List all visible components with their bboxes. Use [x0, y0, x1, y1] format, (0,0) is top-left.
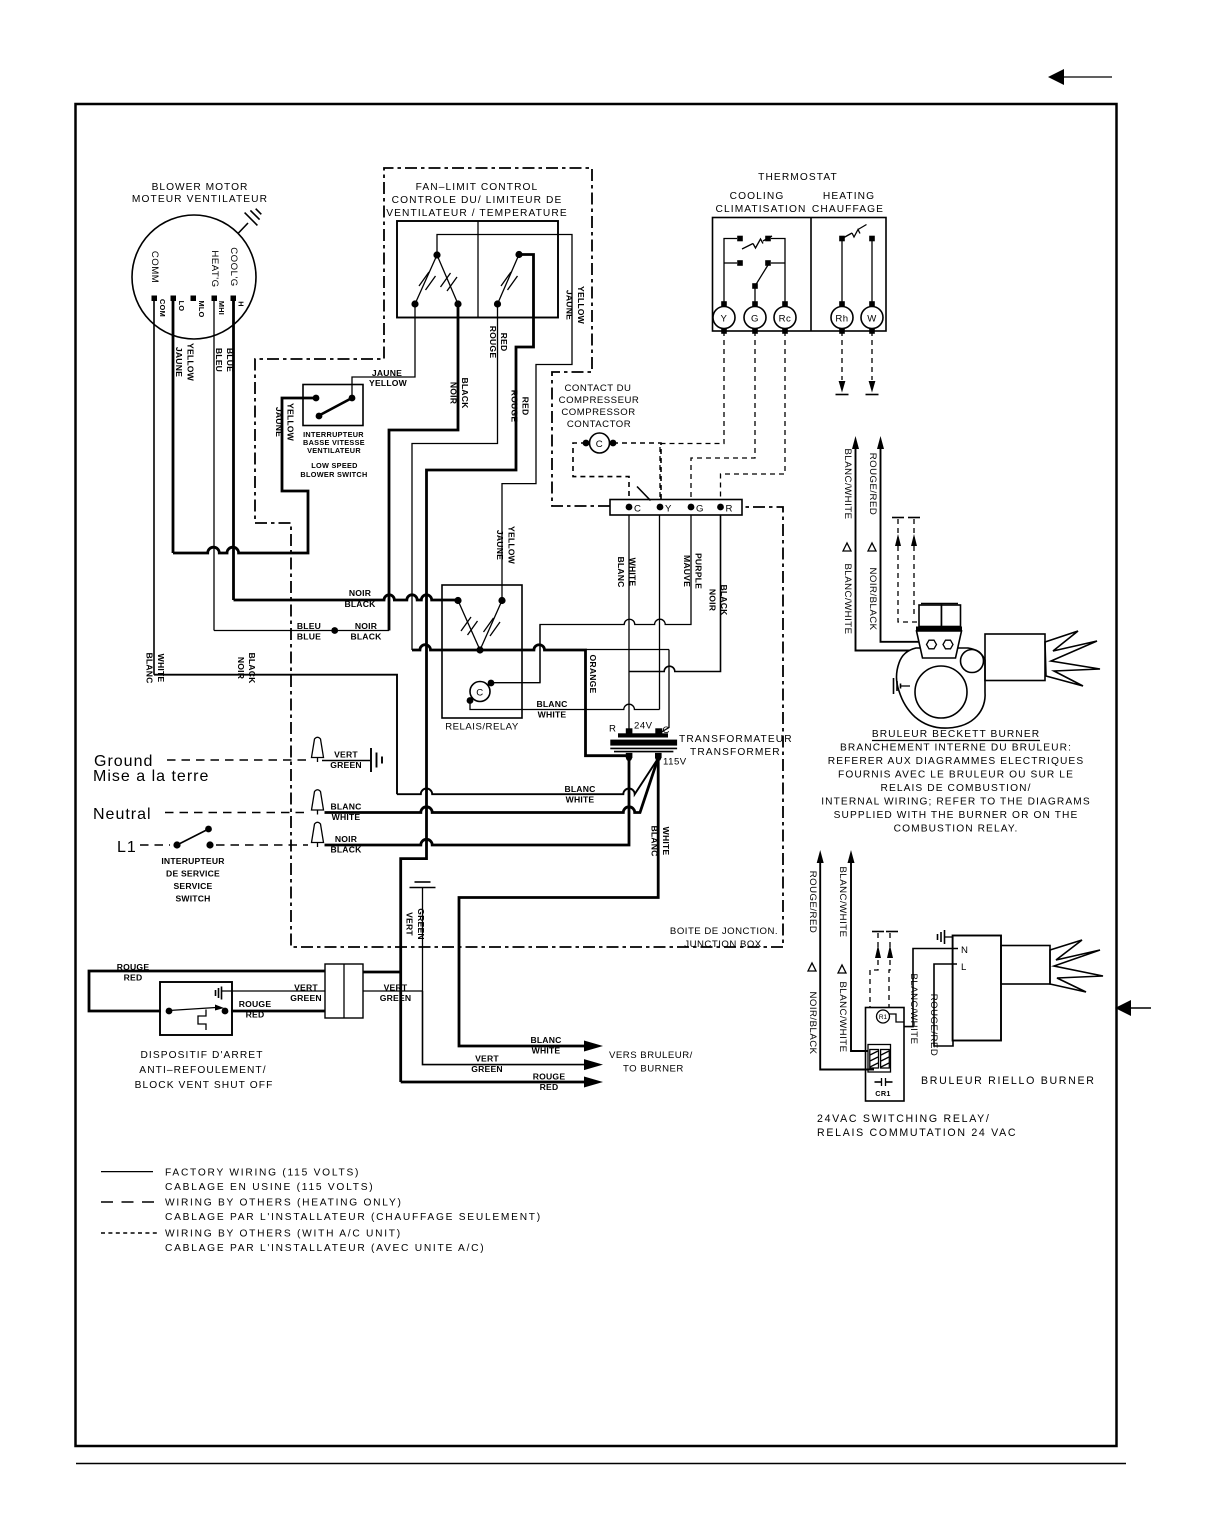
label noir black L1 row: [330, 834, 362, 855]
svg-text:VERT: VERT: [334, 750, 358, 760]
label vert green ground row: [330, 750, 362, 771]
svg-text:LOW SPEED: LOW SPEED: [311, 461, 358, 470]
svg-text:COM: COM: [158, 299, 167, 317]
riello flame: [1050, 940, 1103, 992]
beckett burner junction plate: [916, 627, 962, 659]
svg-text:Mise a la terre: Mise a la terre: [93, 768, 209, 785]
beckett flame: [1045, 631, 1100, 686]
label blanc/white strip C: [616, 556, 638, 587]
svg-text:Rh: Rh: [835, 314, 848, 325]
plug neutral: [312, 790, 324, 815]
wire neutral row to transformer: [325, 759, 659, 813]
svg-text:YELLOW: YELLOW: [186, 343, 196, 382]
svg-text:WIRING BY OTHERS (HEATING ONLY: WIRING BY OTHERS (HEATING ONLY): [165, 1198, 403, 1209]
wire Y dashed to terminal strip: [660, 331, 724, 500]
label blanc/white COM wire: [145, 652, 167, 683]
svg-text:LO: LO: [177, 301, 186, 312]
svg-text:HEAT'G: HEAT'G: [209, 250, 220, 287]
label blanc/white transformer down: [650, 825, 672, 856]
svg-text:REFERER AUX DIAGRAMMES ELECTRI: REFERER AUX DIAGRAMMES ELECTRIQUES: [828, 756, 1084, 767]
wire LO run to low speed switch: [173, 398, 313, 553]
svg-text:BLANC/WHITE: BLANC/WHITE: [842, 563, 853, 634]
thermostat box: [713, 218, 887, 332]
wire rouge/red thick from limit switch top: [401, 255, 534, 1083]
thermostat terminal W: [861, 301, 883, 334]
svg-text:RELAIS DE COMBUSTION/: RELAIS DE COMBUSTION/: [880, 783, 1031, 794]
fan switch contacts left: [411, 251, 461, 307]
svg-text:CONTACTOR: CONTACTOR: [567, 419, 631, 430]
label vers bruleur to burner: [609, 1050, 693, 1075]
label rouge red burner feed: [533, 1072, 566, 1093]
wire transformer 115V hot to L1 row: [325, 758, 630, 845]
svg-text:RED: RED: [246, 1010, 265, 1020]
svg-text:SERVICE: SERVICE: [174, 881, 213, 891]
wire H noir/black vertical: [232, 301, 235, 600]
svg-text:BLUE: BLUE: [297, 632, 321, 642]
wire strip G mauve/purple to relay coil: [493, 515, 691, 683]
svg-text:COOLING: COOLING: [730, 191, 785, 202]
label jaune yellow fan-limit right: [565, 286, 587, 325]
low speed blower switch S2 box: [303, 385, 363, 426]
thermostat terminal Rc: [774, 301, 796, 334]
svg-text:ROUGE/RED: ROUGE/RED: [928, 994, 939, 1057]
right reference arrow: [1115, 1000, 1151, 1016]
svg-text:TRANSFORMER: TRANSFORMER: [690, 747, 781, 758]
arrow vert green to burner: [584, 1059, 603, 1070]
svg-text:G: G: [696, 504, 704, 515]
plug ground: [312, 737, 324, 762]
riello field wire blanc/white with arrow: [848, 850, 869, 1051]
wire Rc dashed to terminal strip: [721, 331, 786, 500]
svg-text:BLACK: BLACK: [247, 652, 257, 684]
svg-text:COOL'G: COOL'G: [228, 247, 239, 286]
service switch caption: [161, 856, 225, 904]
svg-text:ROUGE: ROUGE: [510, 390, 520, 423]
svg-text:R: R: [609, 724, 616, 735]
svg-text:WHITE: WHITE: [532, 1046, 561, 1056]
low speed switch arm: [320, 399, 351, 416]
arrow rouge red to burner: [584, 1077, 603, 1088]
fan relay K1 box: [442, 585, 522, 718]
blower motor M1 body: [132, 215, 256, 339]
label blanc white neutral mid: [564, 784, 595, 805]
label noir/black strip R: [708, 584, 730, 616]
low speed switch caption: [300, 430, 367, 479]
svg-text:Neutral: Neutral: [93, 806, 152, 823]
svg-text:BLANC: BLANC: [530, 1035, 561, 1045]
svg-text:THERMOSTAT: THERMOSTAT: [758, 172, 838, 183]
svg-text:BLOWER SWITCH: BLOWER SWITCH: [300, 470, 367, 479]
transformer labels: [609, 721, 793, 768]
svg-text:VENTILATEUR: VENTILATEUR: [307, 446, 361, 455]
wire rouge red grommet right: [363, 971, 401, 974]
label jaune yellow relay feed: [495, 526, 517, 565]
svg-text:C: C: [634, 504, 641, 515]
svg-text:Y: Y: [721, 314, 728, 325]
label rouge red inside: [239, 999, 272, 1020]
border frame: [76, 104, 1127, 1464]
svg-text:FOURNIS AVEC LE BRULEUR OU SUR: FOURNIS AVEC LE BRULEUR OU SUR LE: [838, 770, 1074, 781]
low speed switch terminals: [313, 395, 356, 420]
svg-text:R: R: [726, 504, 733, 515]
svg-text:WHITE: WHITE: [566, 795, 595, 805]
svg-text:BRANCHEMENT INTERNE DU BRULEUR: BRANCHEMENT INTERNE DU BRULEUR:: [840, 743, 1072, 754]
svg-text:WHITE: WHITE: [538, 710, 567, 720]
wire jaune/yellow from fan switch top: [437, 235, 572, 601]
node Ground label: [93, 753, 209, 785]
blower motor winding labels: [149, 247, 239, 287]
svg-text:N: N: [961, 945, 968, 956]
plug L1: [312, 822, 324, 847]
thermostat cooling heading: [716, 191, 807, 215]
svg-text:GREEN: GREEN: [471, 1064, 503, 1074]
svg-text:24V: 24V: [634, 721, 653, 732]
grommet bushing: [325, 964, 363, 1018]
cooling switch wiring: [724, 239, 785, 305]
wire ground solid to ground lugs: [322, 760, 370, 762]
cooling switch contacts: [737, 236, 771, 289]
wire switch to fan-limit jaune: [352, 305, 415, 398]
beckett burner plate bolts: [927, 640, 954, 649]
svg-text:NOIR: NOIR: [355, 621, 378, 631]
block vent switch contacts: [166, 1005, 229, 1031]
svg-text:MHI: MHI: [217, 301, 226, 315]
thermostat terminal Y: [713, 301, 735, 334]
svg-text:BLANC: BLANC: [145, 652, 155, 683]
svg-text:BLACK: BLACK: [350, 632, 382, 642]
svg-text:BLANC: BLANC: [536, 699, 567, 709]
svg-text:BLANC/WHITE: BLANC/WHITE: [837, 866, 848, 937]
legend heating-only dashed sample: [101, 1198, 542, 1224]
wire COM blanc/white run to transformer neutral: [154, 675, 397, 795]
svg-text:WHITE: WHITE: [332, 812, 361, 822]
fan-limit control label: [386, 182, 567, 219]
cooling switch arm with anticipator: [742, 236, 772, 249]
svg-text:VENTILATEUR / TEMPERATURE: VENTILATEUR / TEMPERATURE: [386, 208, 567, 219]
svg-text:MLO: MLO: [197, 300, 206, 317]
wire rouge red to burner arrow: [401, 1081, 584, 1084]
riello relay inner contact block: [868, 1045, 891, 1073]
svg-text:R1: R1: [879, 1014, 888, 1021]
label noir black fan-limit: [449, 377, 471, 409]
svg-text:COMM: COMM: [149, 251, 160, 283]
svg-text:VERT: VERT: [475, 1054, 499, 1064]
svg-text:COMBUSTION RELAY.: COMBUSTION RELAY.: [894, 824, 1019, 835]
svg-text:BRULEUR RIELLO BURNER: BRULEUR RIELLO BURNER: [921, 1075, 1096, 1087]
junction dot bleu/noir: [331, 627, 338, 634]
svg-text:JUNCTION BOX: JUNCTION BOX: [684, 939, 762, 950]
svg-text:VERT: VERT: [294, 983, 318, 993]
legend factory wiring sample: [101, 1168, 374, 1194]
svg-text:NOIR: NOIR: [349, 588, 372, 598]
wire COM blanc/white vertical: [153, 301, 155, 675]
svg-text:ROUGE/RED: ROUGE/RED: [807, 871, 818, 934]
junction box caption: [670, 926, 778, 950]
svg-text:ORANGE: ORANGE: [588, 655, 598, 694]
wire vert green grommet to ground: [363, 990, 423, 992]
wire LO jaune/yellow vertical: [172, 301, 175, 553]
beckett burner solenoid valve: [919, 604, 961, 627]
wire noir/black fan switch to bleu junction: [389, 306, 458, 631]
ground bars symbol: [371, 748, 382, 772]
limit switch contacts right: [494, 251, 523, 308]
thermostat box divider: [810, 218, 812, 332]
svg-text:BLEU: BLEU: [297, 621, 321, 631]
fan relay coil C: [467, 680, 495, 704]
svg-text:YELLOW: YELLOW: [369, 378, 408, 388]
svg-text:BLOCK VENT SHUT OFF: BLOCK VENT SHUT OFF: [135, 1080, 274, 1091]
wire bleu/blue run joining fan-limit black: [214, 630, 389, 632]
svg-text:H: H: [237, 301, 246, 307]
svg-text:CONTACT DU: CONTACT DU: [564, 383, 631, 394]
beckett field wire noir/black with arrow: [877, 436, 926, 642]
svg-text:C: C: [596, 439, 603, 450]
wire strip R noir/black to transformer R: [629, 515, 721, 672]
svg-text:L: L: [961, 962, 967, 973]
svg-text:WIRING BY OTHERS (WITH A/C UNI: WIRING BY OTHERS (WITH A/C UNIT): [165, 1229, 402, 1240]
svg-text:BLANC/WHITE: BLANC/WHITE: [837, 981, 848, 1052]
compressor contactor label: [559, 383, 640, 430]
transformer T1: [610, 728, 677, 761]
label jaune yellow horizontal: [369, 368, 408, 388]
svg-text:NOIR/BLACK: NOIR/BLACK: [807, 991, 818, 1054]
svg-text:INTERNAL WIRING; REFER TO THE: INTERNAL WIRING; REFER TO THE DIAGRAMS: [821, 797, 1091, 808]
svg-text:VERS BRULEUR/: VERS BRULEUR/: [609, 1050, 693, 1061]
svg-text:JAUNE: JAUNE: [274, 407, 284, 437]
svg-text:GREEN: GREEN: [416, 908, 426, 940]
svg-text:TO BURNER: TO BURNER: [623, 1064, 684, 1075]
svg-text:BLACK: BLACK: [330, 845, 362, 855]
svg-text:L1: L1: [117, 839, 137, 856]
block vent vent symbol: [216, 987, 326, 1000]
thermostat terminal G: [744, 301, 766, 334]
svg-text:CABLAGE PAR L'INSTALLATEUR (AV: CABLAGE PAR L'INSTALLATEUR (AVEC UNITE A…: [165, 1243, 485, 1254]
wire noir/black run to relay: [234, 595, 457, 600]
svg-text:CLIMATISATION: CLIMATISATION: [716, 204, 807, 215]
wire L1 dashed to plug: [216, 844, 308, 846]
thermostat heating heading: [812, 191, 884, 215]
svg-text:RED: RED: [499, 333, 509, 352]
svg-text:PURPLE: PURPLE: [694, 553, 704, 589]
labels beckett right wire: [867, 453, 878, 631]
svg-text:CABLAGE PAR L'INSTALLATEUR (CH: CABLAGE PAR L'INSTALLATEUR (CHAUFFAGE SE…: [165, 1212, 542, 1223]
svg-text:MOTEUR VENTILATEUR: MOTEUR VENTILATEUR: [132, 194, 268, 205]
svg-text:RED: RED: [124, 973, 143, 983]
wire riello rouge/red to burner L: [934, 964, 957, 1046]
svg-text:COMPRESSOR: COMPRESSOR: [561, 407, 635, 418]
beckett t-stat dashed stubs: [892, 518, 920, 623]
svg-text:BLANC/WHITE: BLANC/WHITE: [908, 973, 919, 1044]
svg-text:TRANSFORMATEUR: TRANSFORMATEUR: [679, 734, 793, 745]
label rouge red thin: [488, 326, 509, 359]
label mauve/purple: [682, 553, 704, 589]
beckett burner ground: [894, 678, 911, 694]
wire vert green to burner: [423, 991, 585, 1065]
blower motor terminals COM LO MLO MHI H: [152, 296, 246, 318]
wire thin y625 crossover segment: [539, 625, 541, 683]
svg-text:BRULEUR BECKETT BURNER: BRULEUR BECKETT BURNER: [872, 729, 1040, 740]
svg-text:FAN–LIMIT CONTROL: FAN–LIMIT CONTROL: [416, 182, 539, 193]
wire contactor dashed loop to strip C: [573, 443, 651, 501]
wire Rh dashed stub with arrow: [836, 331, 849, 395]
svg-text:BLANC/WHITE: BLANC/WHITE: [842, 448, 853, 519]
svg-text:NOIR/BLACK: NOIR/BLACK: [867, 567, 878, 630]
label vert green left of grommet: [290, 983, 322, 1004]
svg-text:ROUGE: ROUGE: [239, 999, 272, 1009]
svg-text:NOIR: NOIR: [449, 382, 459, 405]
label blanc white neutral row: [330, 802, 361, 823]
svg-text:ANTI–REFOULEMENT/: ANTI–REFOULEMENT/: [139, 1065, 266, 1076]
svg-text:GREEN: GREEN: [380, 993, 412, 1003]
svg-text:JAUNE: JAUNE: [174, 347, 184, 377]
wire rouge/red thin from limit switch: [412, 306, 498, 650]
svg-text:INTERUPTEUR: INTERUPTEUR: [161, 856, 225, 866]
label bleu/blue MHI wire: [214, 348, 235, 372]
svg-text:G: G: [751, 314, 759, 325]
compressor contactor coil C: [583, 433, 617, 453]
svg-text:BLACK: BLACK: [344, 599, 376, 609]
svg-text:BLACK: BLACK: [460, 377, 470, 409]
svg-text:HEATING: HEATING: [823, 191, 875, 202]
svg-text:GREEN: GREEN: [290, 993, 322, 1003]
svg-text:CABLAGE EN USINE (115 VOLTS): CABLAGE EN USINE (115 VOLTS): [165, 1182, 374, 1193]
label rouge red thick: [510, 390, 531, 423]
wire transformer 115V neutral vertical white down: [459, 758, 658, 1046]
svg-text:SUPPLIED WITH THE BURNER OR ON: SUPPLIED WITH THE BURNER OR ON THE: [834, 810, 1079, 821]
label noir black relay feed: [344, 588, 376, 609]
svg-text:ROUGE: ROUGE: [533, 1072, 566, 1082]
svg-text:YELLOW: YELLOW: [507, 526, 517, 565]
svg-text:RED: RED: [521, 397, 531, 416]
svg-text:ROUGE/RED: ROUGE/RED: [867, 453, 878, 516]
svg-text:RELAIS COMMUTATION 24 VAC: RELAIS COMMUTATION 24 VAC: [817, 1127, 1017, 1139]
wire transformer C diagonal from orange node: [659, 650, 669, 734]
labels bleu blue noir black junction: [297, 621, 382, 642]
svg-text:YELLOW: YELLOW: [286, 403, 296, 442]
svg-text:SWITCH: SWITCH: [175, 894, 210, 904]
svg-text:BLEU: BLEU: [214, 348, 224, 372]
terminal strip dots and labels C Y G R: [626, 504, 733, 515]
label blanc white relay coil: [536, 699, 567, 720]
beckett burner body: [897, 648, 986, 728]
svg-text:BLANC: BLANC: [616, 556, 626, 587]
label jaune/yellow LO wire: [174, 343, 196, 382]
riello t-stat dashed stubs: [870, 932, 898, 1008]
svg-text:Rc: Rc: [779, 314, 792, 325]
svg-text:115V: 115V: [663, 757, 687, 768]
svg-text:BLACK: BLACK: [719, 584, 729, 616]
wire y649 thin tap to transformer C: [586, 649, 670, 651]
labels beckett left wire: [842, 448, 853, 634]
riello relay caption: [817, 1113, 1017, 1139]
wire W dashed stub with arrow: [866, 331, 879, 395]
wire riello R1 to burner white: [890, 949, 959, 1027]
svg-text:VERT: VERT: [405, 912, 415, 936]
svg-text:ROUGE: ROUGE: [488, 326, 498, 359]
svg-text:JAUNE: JAUNE: [372, 368, 402, 378]
svg-text:CONTROLE DU/ LIMITEUR DE: CONTROLE DU/ LIMITEUR DE: [392, 195, 563, 206]
svg-text:NOIR: NOIR: [236, 657, 246, 680]
blower motor case ground: [238, 209, 261, 234]
svg-text:CHAUFFAGE: CHAUFFAGE: [812, 204, 884, 215]
wire strip C blanc/white to transformer R: [628, 515, 630, 732]
svg-text:FACTORY WIRING (115 VOLTS): FACTORY WIRING (115 VOLTS): [165, 1168, 360, 1179]
svg-text:CR1: CR1: [875, 1089, 891, 1098]
fan-limit box divider: [477, 221, 479, 318]
beckett air tube: [985, 634, 1045, 681]
terminal strip TB1: [610, 500, 742, 516]
svg-text:BOITE DE JONCTION.: BOITE DE JONCTION.: [670, 926, 778, 937]
wire MHI bleu/blue vertical: [213, 301, 215, 631]
label noir/black H wire: [236, 652, 257, 684]
wire relay common thick to orange and transformer C: [412, 645, 626, 756]
svg-text:Y: Y: [665, 504, 672, 515]
label vert green right of grommet: [380, 983, 412, 1004]
svg-text:NOIR: NOIR: [335, 834, 358, 844]
wire neutral dashed row: [165, 812, 308, 814]
riello burner ground: [938, 930, 953, 944]
svg-text:BLANC: BLANC: [650, 825, 660, 856]
label rouge red top left: [117, 962, 150, 983]
wire G dashed to terminal strip: [691, 331, 755, 500]
labels riello left wire: [807, 871, 818, 1055]
svg-text:BLANC: BLANC: [330, 802, 361, 812]
blower motor M1 label: [132, 182, 268, 205]
svg-text:BLOWER MOTOR: BLOWER MOTOR: [152, 182, 249, 193]
heating switch contacts: [839, 236, 875, 304]
svg-text:YELLOW: YELLOW: [576, 286, 586, 325]
svg-text:JAUNE: JAUNE: [565, 290, 575, 320]
riello switching relay CR1 box: [866, 1008, 905, 1102]
service switch S1: [173, 826, 213, 849]
riello relay CR1 contact: [875, 1078, 893, 1098]
riello relay R1 coil: [877, 1010, 890, 1023]
thermostat terminal Rh: [831, 301, 853, 334]
labels riello second wire: [837, 866, 848, 1052]
boundary dash-dot wiring by others loop: [255, 168, 783, 947]
fan relay contacts: [454, 597, 505, 654]
svg-text:WHITE: WHITE: [661, 827, 671, 856]
wire ground dashed row: [167, 759, 308, 761]
svg-text:NOIR: NOIR: [708, 589, 718, 612]
fan-limit control box: [397, 221, 558, 318]
chassis ground symbol junction box: [410, 882, 436, 991]
svg-text:VERT: VERT: [384, 983, 408, 993]
wire rouge red block vent loop: [89, 971, 325, 1011]
svg-text:RED: RED: [540, 1082, 559, 1092]
label jaune yellow vertical left of switch: [274, 403, 296, 442]
svg-text:MAUVE: MAUVE: [682, 555, 692, 587]
riello air tube: [1001, 946, 1050, 985]
label blanc white burner feed: [530, 1035, 561, 1056]
wire L1 dash to switch: [140, 844, 170, 846]
wire contactor dashed to strip Y: [613, 443, 661, 500]
svg-text:WHITE: WHITE: [156, 654, 166, 683]
beckett field wire blanc/white with arrow: [852, 436, 920, 651]
label vert green chassis ground: [405, 908, 427, 940]
label vert green burner feed: [471, 1054, 503, 1075]
svg-text:GREEN: GREEN: [330, 760, 362, 770]
legend a/c dashed sample: [101, 1229, 485, 1255]
svg-text:DISPOSITIF D'ARRET: DISPOSITIF D'ARRET: [140, 1050, 263, 1061]
block vent caption: [135, 1050, 274, 1091]
top reference arrow: [1048, 69, 1112, 85]
riello burner N L terminals: [961, 945, 968, 973]
block vent shut off box: [160, 982, 232, 1035]
svg-text:WHITE: WHITE: [628, 558, 638, 587]
svg-text:DE SERVICE: DE SERVICE: [166, 869, 220, 879]
wire strip Y blanc/white down: [659, 515, 661, 710]
